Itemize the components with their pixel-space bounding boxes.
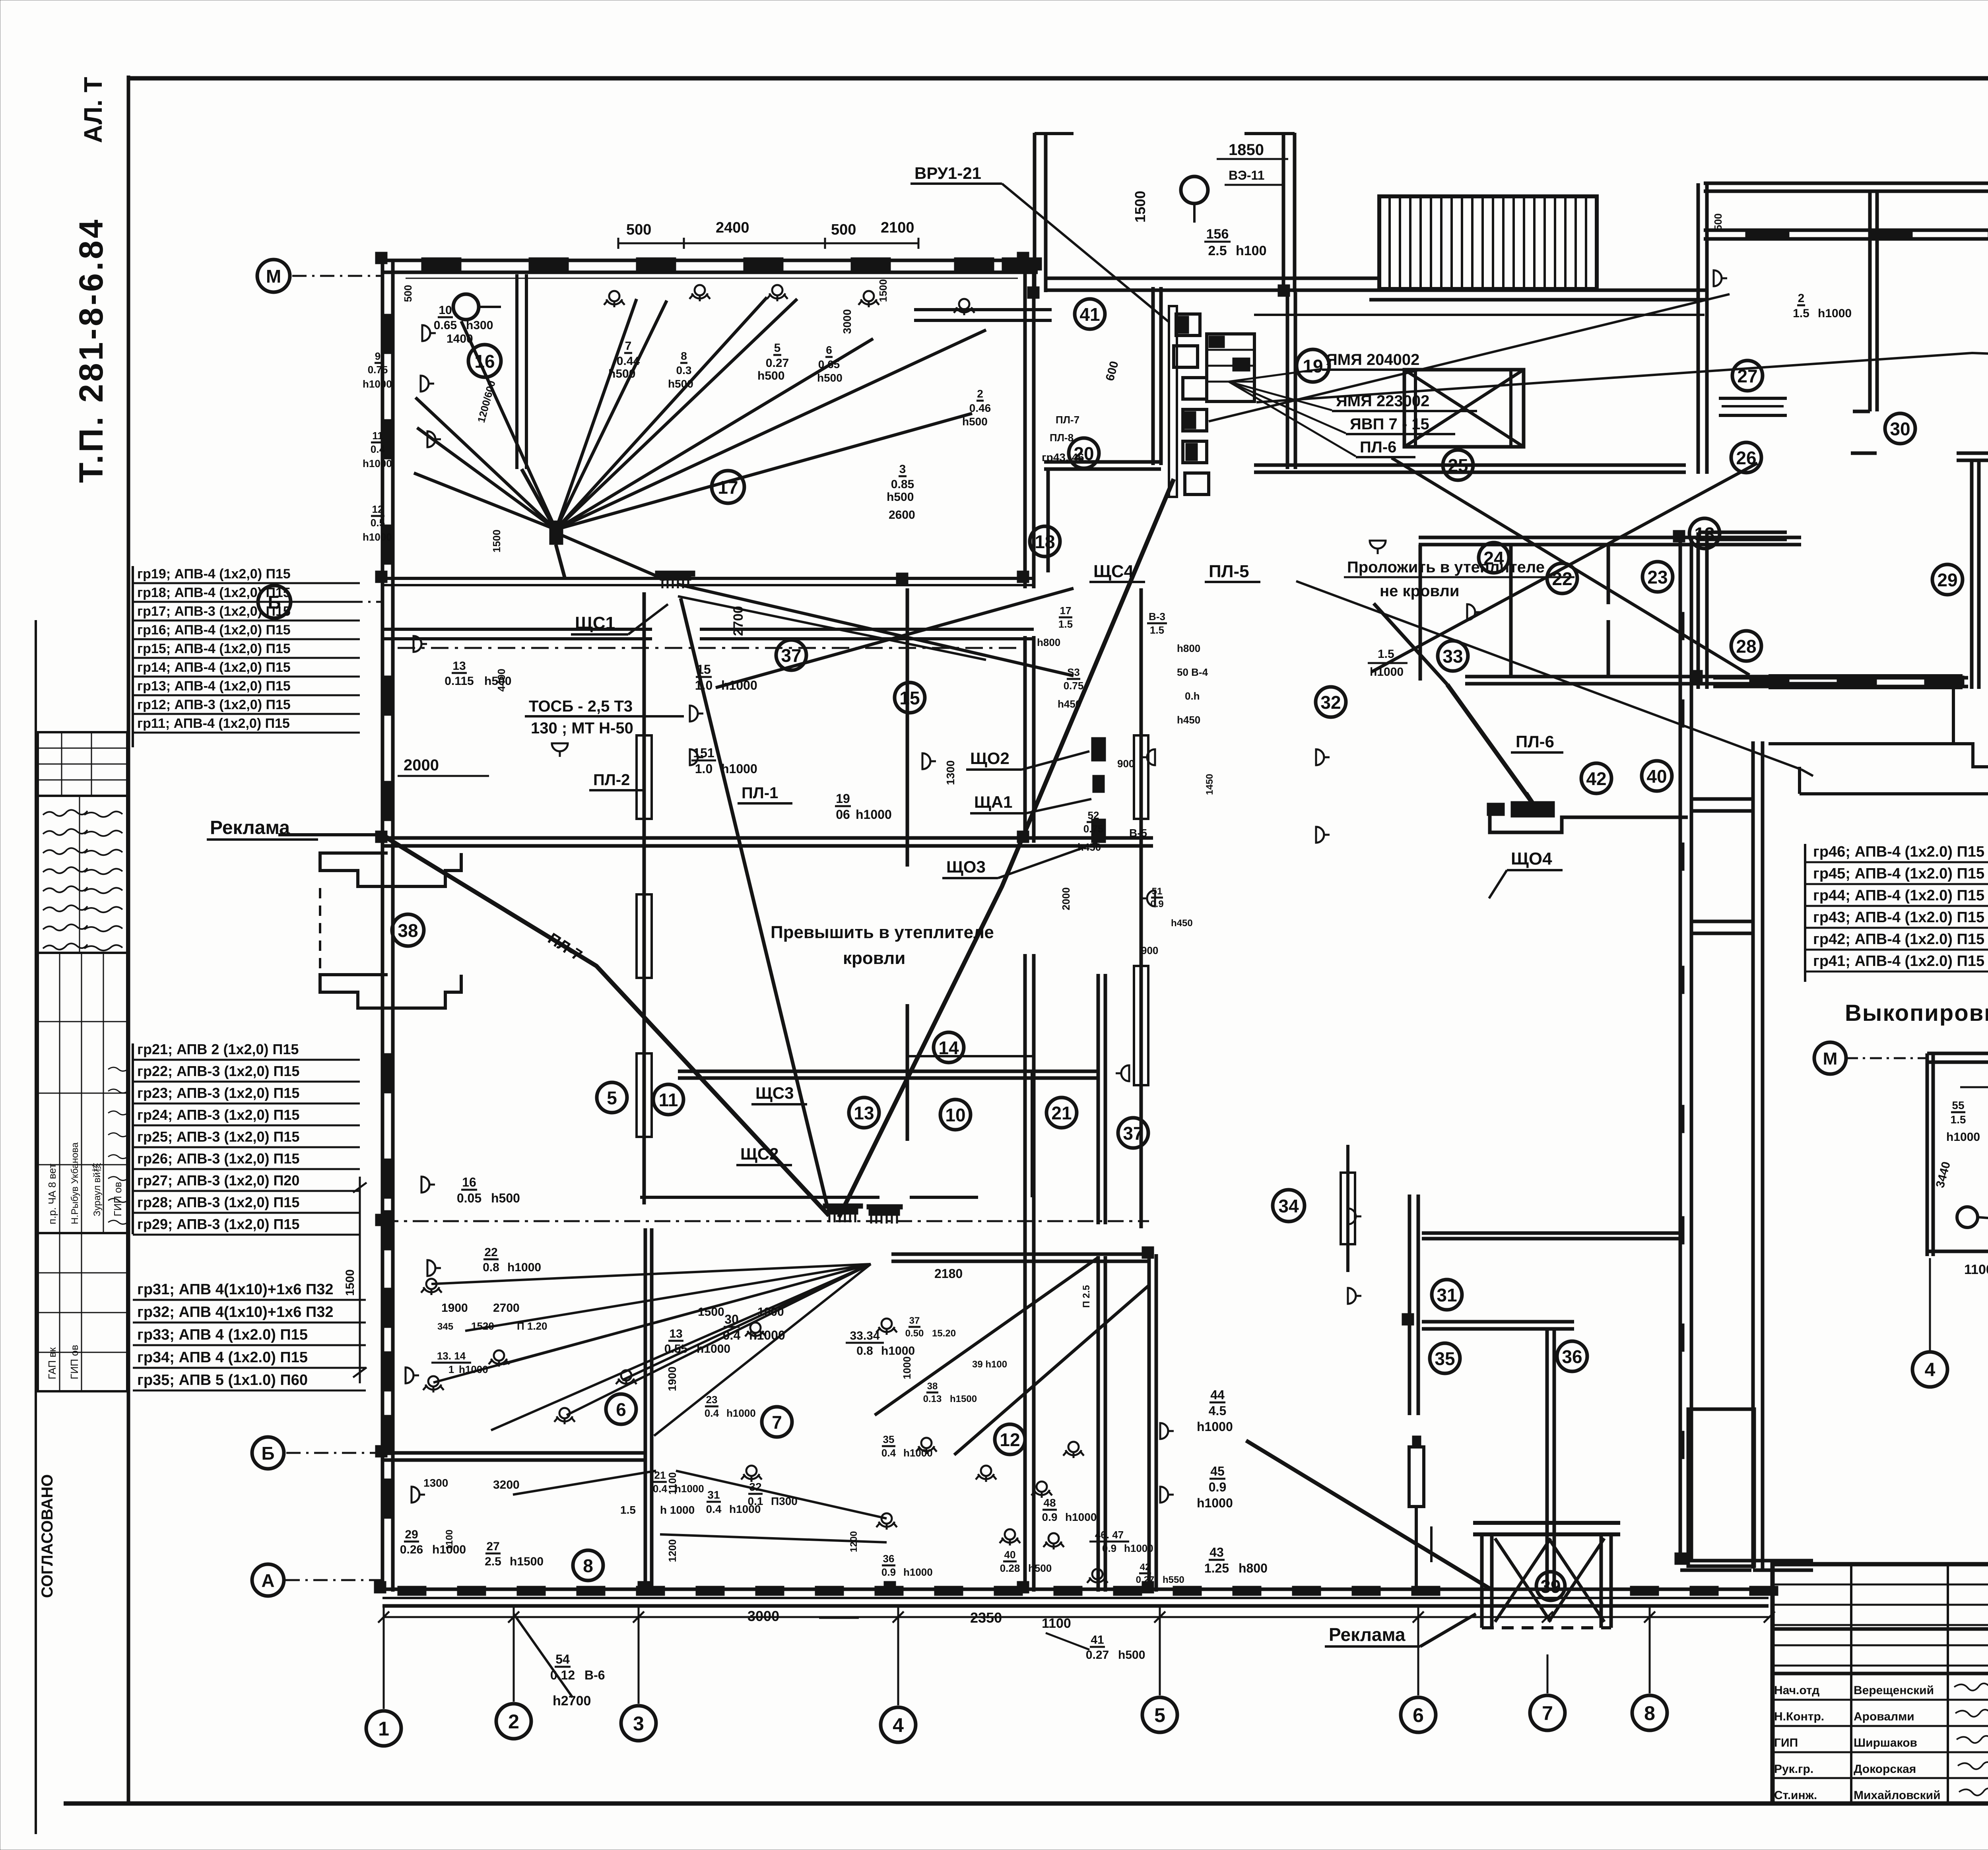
dimension row above top wall (618, 242, 918, 244)
room circle 27 (1732, 361, 1763, 391)
svg-text:130 ; МТ Н-50: 130 ; МТ Н-50 (531, 719, 633, 737)
east hall wall stubs (1691, 797, 1753, 801)
svg-text:19: 19 (836, 791, 850, 806)
svg-text:5: 5 (774, 341, 781, 355)
svg-text:13: 13 (669, 1327, 682, 1340)
svg-text:ГИП: ГИП (1774, 1736, 1798, 1749)
svg-text:1450: 1450 (1204, 774, 1215, 795)
svg-text:2350: 2350 (970, 1610, 1002, 1626)
svg-text:М: М (266, 266, 281, 287)
svg-text:1.5: 1.5 (620, 1504, 636, 1516)
svg-text:1900: 1900 (757, 1305, 784, 1319)
svg-text:0.50: 0.50 (905, 1328, 924, 1339)
left wall window blocks (381, 314, 394, 354)
top wall window blocks (421, 258, 461, 270)
svg-text:21: 21 (1051, 1103, 1072, 1123)
wall band center (axis M right part) (1046, 277, 1380, 280)
right wing top wall (axis M) (1704, 182, 1988, 185)
svg-text:М: М (1823, 1049, 1838, 1069)
partition between rooms 16 and 17 (515, 274, 518, 469)
svg-text:43: 43 (1209, 1545, 1224, 1559)
svg-text:ЩС2: ЩС2 (740, 1144, 779, 1163)
cable room13 cross diagonals (1372, 463, 1757, 672)
svg-text:ПЛ-6: ПЛ-6 (1516, 732, 1554, 751)
svg-text:h1000: h1000 (675, 1483, 704, 1495)
svg-text:9: 9 (375, 350, 381, 362)
svg-text:33: 33 (1442, 646, 1463, 667)
svg-text:2.5: 2.5 (1208, 243, 1227, 258)
svg-text:40: 40 (1004, 1549, 1016, 1561)
svg-text:0.1: 0.1 (748, 1495, 763, 1507)
svg-text:900: 900 (1117, 758, 1134, 770)
axis circle 2 (496, 1704, 531, 1739)
svg-text:22: 22 (1552, 568, 1572, 589)
svg-text:1200: 1200 (666, 1539, 678, 1562)
svg-text:гр13; АПВ-4 (1х2,0) П15: гр13; АПВ-4 (1х2,0) П15 (137, 679, 291, 694)
svg-text:21: 21 (654, 1469, 666, 1481)
wall between room 6 and 8 (382, 1451, 645, 1455)
right wing west wall upper (1697, 183, 1700, 474)
wall junction blobs (375, 252, 387, 264)
svg-text:6: 6 (1413, 1704, 1424, 1726)
svg-text:2000: 2000 (1060, 887, 1072, 910)
svg-text:гр21; АПВ 2 (1х2,0) П15: гр21; АПВ 2 (1х2,0) П15 (137, 1041, 299, 1057)
svg-text:ЩС1: ЩС1 (575, 613, 615, 633)
left margin signatures block (38, 796, 127, 953)
svg-text:ПЛ-6: ПЛ-6 (1360, 438, 1396, 456)
svg-text:17: 17 (1060, 605, 1072, 617)
lamps right rooms (1714, 270, 1727, 286)
svg-text:Б: Б (268, 592, 281, 613)
svg-text:ГАП вк: ГАП вк (46, 1347, 58, 1379)
room circle 18 (1030, 526, 1060, 557)
exterior wall top (axis M) (382, 259, 1038, 262)
svg-text:1520: 1520 (471, 1320, 494, 1332)
svg-text:19: 19 (1303, 356, 1323, 376)
svg-text:h1000: h1000 (697, 1342, 730, 1356)
svg-text:4400: 4400 (495, 669, 507, 692)
svg-text:0.27: 0.27 (766, 357, 789, 370)
svg-text:13. 14: 13. 14 (437, 1350, 466, 1362)
svg-text:2400: 2400 (716, 219, 749, 236)
svg-text:Реклама: Реклама (1329, 1624, 1406, 1645)
svg-text:42: 42 (1586, 768, 1606, 789)
cable hall diagonal to porch (1246, 1441, 1491, 1589)
right wing partition room27/30 (1868, 191, 1872, 411)
left margin approval table (38, 953, 127, 1233)
svg-text:h1000: h1000 (881, 1344, 915, 1357)
svg-text:7: 7 (772, 1412, 782, 1433)
svg-text:38: 38 (927, 1381, 938, 1392)
svg-text:1: 1 (378, 1718, 389, 1740)
svg-text:55: 55 (1952, 1099, 1964, 1111)
cable riser SchS1 to SchS2 (643, 592, 646, 1204)
svg-text:h1000: h1000 (856, 807, 892, 822)
panel SchO4 black box (1511, 801, 1555, 817)
svg-text:1100: 1100 (1042, 1616, 1071, 1631)
svg-text:41: 41 (1091, 1633, 1104, 1646)
svg-text:гр22; АПВ-3 (1х2,0) П15: гр22; АПВ-3 (1х2,0) П15 (137, 1063, 299, 1079)
hall dashed door (1430, 1526, 1433, 1562)
facade niche outlines left of room 38 (320, 853, 461, 886)
room circle 42 (1581, 763, 1611, 793)
svg-text:0.h: 0.h (1185, 690, 1200, 702)
wall between room 35 and 36 (1545, 1329, 1549, 1590)
room circle 37 (1118, 1118, 1148, 1148)
svg-text:h1000: h1000 (721, 762, 757, 776)
svg-text:25: 25 (1448, 455, 1468, 476)
bottom dimension chain line (384, 1616, 1769, 1618)
room circle 16 (468, 345, 501, 377)
svg-text:0.28: 0.28 (1000, 1562, 1020, 1574)
svg-text:0.75: 0.75 (1064, 680, 1084, 692)
svg-text:B-3: B-3 (1149, 611, 1165, 622)
svg-text:h450: h450 (1177, 714, 1200, 726)
svg-text:900: 900 (1141, 944, 1158, 956)
wall right of room 12 (1147, 1254, 1151, 1592)
corridor 37a lower wall band (382, 628, 652, 631)
svg-text:0.115: 0.115 (445, 675, 474, 688)
cable riser center hall (1140, 588, 1143, 1228)
svg-text:гр43; АПВ-4 (1х2.0) П15: гр43; АПВ-4 (1х2.0) П15 (1813, 909, 1984, 926)
svg-text:0.65: 0.65 (434, 319, 457, 332)
svg-text:16: 16 (462, 1175, 476, 1189)
panels SchS2 SchS3 combs bottom (827, 1208, 858, 1222)
wall under room 30 (1957, 452, 1988, 455)
svg-text:ЯВП 7 - 15: ЯВП 7 - 15 (1350, 415, 1429, 433)
svg-text:36: 36 (1562, 1346, 1582, 1367)
drawing frame left border (127, 76, 130, 1805)
svg-text:1100: 1100 (666, 1472, 678, 1495)
vertical cable riser in hall (1346, 1145, 1349, 1272)
svg-text:гр12; АПВ-3 (1х2,0) П15: гр12; АПВ-3 (1х2,0) П15 (137, 697, 291, 712)
drawing frame bottom border (64, 1802, 1988, 1806)
svg-text:10: 10 (945, 1105, 965, 1125)
svg-text:гр42; АПВ-4 (1х2.0) П15: гр42; АПВ-4 (1х2.0) П15 (1813, 931, 1984, 948)
svg-text:2: 2 (977, 388, 983, 400)
svg-text:54: 54 (555, 1652, 570, 1666)
svg-text:7: 7 (1542, 1702, 1553, 1724)
vestibule top center walls (1033, 133, 1037, 292)
svg-text:Б: Б (261, 1443, 274, 1464)
svg-text:ЩО4: ЩО4 (1511, 849, 1552, 869)
svg-text:Михайловский: Михайловский (1854, 1789, 1941, 1802)
svg-text:13: 13 (452, 659, 466, 673)
svg-text:4: 4 (893, 1714, 904, 1736)
room circle 34 (1273, 1190, 1305, 1222)
svg-text:Ст.инж.: Ст.инж. (1774, 1789, 1817, 1802)
svg-text:13: 13 (854, 1103, 874, 1123)
wall lamps room15/center (552, 743, 568, 757)
svg-text:1300: 1300 (944, 760, 957, 785)
reklama leader left (278, 833, 384, 836)
svg-text:Верещенский: Верещенский (1854, 1684, 1934, 1697)
room circle 19 (1297, 349, 1329, 382)
room 31 top wall (1422, 1231, 1680, 1235)
svg-text:0.26: 0.26 (400, 1543, 423, 1556)
street lamp at entrance (1181, 176, 1208, 204)
svg-text:500: 500 (1712, 213, 1724, 231)
svg-text:1100: 1100 (1964, 1262, 1988, 1277)
svg-text:0.4: 0.4 (706, 1503, 722, 1515)
svg-text:гр33; АПВ 4 (1х2.0) П15: гр33; АПВ 4 (1х2.0) П15 (137, 1326, 308, 1343)
room circle 39 (1536, 1572, 1565, 1600)
svg-text:37: 37 (781, 645, 801, 666)
svg-text:Т.П. 281-8-6.84: Т.П. 281-8-6.84 (72, 217, 110, 483)
vent chamber cross box (1404, 370, 1524, 447)
inset axis M circle (1814, 1042, 1846, 1074)
svg-text:АЛ. Т: АЛ. Т (79, 77, 107, 143)
svg-text:ПЛ-7: ПЛ-7 (1056, 414, 1079, 426)
corridor 37a axis dash line (398, 647, 1018, 649)
svg-text:h1500: h1500 (950, 1394, 977, 1404)
svg-text:h500: h500 (887, 491, 914, 504)
gallery bottom turn (1753, 1559, 1813, 1563)
inset axis 4 circle (1912, 1352, 1947, 1387)
svg-text:гр11; АПВ-4 (1х2,0) П15: гр11; АПВ-4 (1х2,0) П15 (137, 716, 290, 731)
room circle 31 (1432, 1280, 1462, 1310)
left margin stamp table upper (38, 732, 127, 796)
room circle 13 upper (1689, 518, 1720, 549)
svg-text:h500: h500 (817, 372, 843, 384)
partition rooms 29 (1970, 461, 1974, 689)
svg-text:5: 5 (607, 1088, 617, 1108)
svg-text:13: 13 (1694, 524, 1714, 544)
room circle 30 (1885, 413, 1915, 444)
svg-text:29: 29 (1937, 570, 1957, 590)
svg-text:2700: 2700 (731, 606, 746, 636)
svg-text:1500: 1500 (877, 279, 889, 302)
wall between rooms 16/17 and corridor (382, 577, 1034, 580)
svg-text:0.9: 0.9 (881, 1566, 896, 1578)
svg-text:2700: 2700 (493, 1301, 520, 1315)
axis circle 1 (366, 1711, 401, 1746)
corridor wall vertical axis B left section (1023, 259, 1027, 588)
svg-text:гр31; АПВ 4(1х10)+1х6 П32: гр31; АПВ 4(1х10)+1х6 П32 (137, 1281, 333, 1298)
rooms 31/35/36 west wall (1408, 1195, 1411, 1415)
svg-text:ЩО2: ЩО2 (970, 749, 1010, 768)
room circle 15 (895, 683, 925, 713)
room circle 8 (573, 1550, 603, 1580)
svg-text:0.46: 0.46 (969, 402, 991, 414)
room circle 21 (1046, 1098, 1077, 1128)
svg-text:41: 41 (1079, 304, 1100, 325)
room circle 20 (1069, 438, 1099, 468)
room circle 24 (1479, 543, 1509, 573)
svg-text:h500: h500 (491, 1191, 520, 1205)
svg-text:35: 35 (883, 1433, 895, 1445)
room circle 11 (653, 1084, 683, 1115)
svg-text:11: 11 (372, 430, 383, 442)
svg-text:ПЛ-5: ПЛ-5 (1209, 562, 1249, 581)
svg-text:06: 06 (836, 807, 850, 822)
svg-text:35: 35 (1435, 1348, 1455, 1369)
svg-text:гр25; АПВ-3 (1х2,0) П15: гр25; АПВ-3 (1х2,0) П15 (137, 1129, 299, 1145)
left margin extra annotations (108, 1067, 129, 1071)
svg-text:28: 28 (1736, 636, 1756, 657)
drawing frame top border (127, 76, 1988, 81)
svg-text:1900: 1900 (666, 1367, 678, 1391)
svg-text:0.4: 0.4 (371, 443, 385, 455)
svg-text:8: 8 (583, 1555, 593, 1576)
svg-text:0.8: 0.8 (856, 1344, 873, 1357)
svg-text:38: 38 (398, 920, 418, 941)
svg-text:15: 15 (899, 688, 920, 708)
svg-text:гр16; АПВ-4 (1х2,0) П15: гр16; АПВ-4 (1х2,0) П15 (137, 622, 291, 638)
svg-text:7: 7 (625, 339, 632, 353)
svg-text:ЩС3: ЩС3 (755, 1084, 794, 1102)
outer sheet edge left (35, 620, 37, 1834)
svg-text:18: 18 (1035, 531, 1055, 552)
axis circle B (258, 586, 291, 618)
left wall dimension chain (359, 1177, 361, 1383)
leader lines from labels to VRU (1229, 369, 1322, 382)
svg-text:39: 39 (1540, 1576, 1561, 1597)
svg-text:ПЛ-2: ПЛ-2 (593, 771, 630, 789)
svg-text:ВРУ1-21: ВРУ1-21 (914, 164, 981, 182)
room circle 14 (934, 1032, 964, 1063)
room circle 35 (1430, 1343, 1460, 1373)
long cable SchS1 to SchS2 diagonal (681, 598, 828, 1208)
axis circle 7 bottom (1530, 1695, 1565, 1730)
svg-text:17: 17 (718, 477, 738, 498)
room circle 7 (762, 1407, 792, 1437)
svg-text:гр28; АПВ-3 (1х2,0) П15: гр28; АПВ-3 (1х2,0) П15 (137, 1194, 299, 1210)
svg-text:h500: h500 (1118, 1648, 1145, 1662)
svg-text:h1000: h1000 (1197, 1419, 1233, 1434)
svg-text:h500: h500 (1028, 1562, 1052, 1574)
bottom axis leader lines (383, 1607, 385, 1709)
svg-text:Н.Контр.: Н.Контр. (1774, 1710, 1824, 1723)
svg-text:40: 40 (1646, 766, 1667, 787)
east corridor wall window notches (1679, 612, 1684, 640)
svg-text:33.34: 33.34 (850, 1329, 879, 1342)
svg-text:гр32; АПВ 4(1х10)+1х6 П32: гр32; АПВ 4(1х10)+1х6 П32 (137, 1304, 333, 1321)
svg-text:h300: h300 (466, 319, 493, 332)
svg-text:1.0: 1.0 (695, 678, 712, 692)
svg-text:0.4: 0.4 (881, 1447, 896, 1459)
exterior wall bottom (382, 1588, 1769, 1591)
axis circle 3 (621, 1706, 656, 1741)
svg-text:0.65: 0.65 (818, 358, 840, 370)
svg-text:ВЭ-11: ВЭ-11 (1229, 168, 1264, 182)
wall top of room 12 (891, 1253, 1149, 1256)
room circle 38 (392, 914, 424, 946)
svg-text:14: 14 (938, 1037, 959, 1058)
svg-text:1.5: 1.5 (1150, 624, 1164, 636)
svg-text:22: 22 (484, 1246, 497, 1259)
rooms 28/29 lower walls (1698, 531, 1787, 534)
shelf wall right of room 17 (914, 308, 1052, 311)
svg-text:А: А (261, 1570, 274, 1591)
svg-text:1100: 1100 (444, 1530, 455, 1550)
svg-text:h1500: h1500 (510, 1555, 544, 1568)
svg-text:1500: 1500 (491, 529, 503, 553)
room circle 37 corridor upper (776, 640, 806, 670)
room circle 23 (1642, 562, 1673, 592)
cable riser near room 35 (1409, 1447, 1424, 1507)
svg-text:31: 31 (707, 1489, 720, 1501)
svg-text:0.8: 0.8 (483, 1261, 499, 1274)
svg-text:8: 8 (681, 350, 687, 362)
svg-text:26: 26 (1736, 448, 1756, 468)
room15 crossing cables (678, 584, 1074, 676)
right wing bottom windows (1713, 676, 1968, 680)
svg-text:1500: 1500 (344, 1269, 357, 1296)
svg-text:16: 16 (474, 351, 495, 372)
right wing leg outline (1769, 676, 1961, 688)
svg-text:1850: 1850 (1229, 141, 1264, 159)
cable across to PL table (1256, 353, 1988, 402)
axis circle 6 bottom (1401, 1697, 1436, 1732)
room circle 26 (1731, 442, 1761, 473)
svg-text:39 h100: 39 h100 (972, 1359, 1007, 1370)
svg-text:0.55: 0.55 (664, 1342, 687, 1356)
svg-text:гр26; АПВ-3 (1х2,0) П15: гр26; АПВ-3 (1х2,0) П15 (137, 1150, 299, 1167)
axis line bottom-left block (382, 1220, 1149, 1222)
svg-text:гр29; АПВ-3 (1х2,0) П15: гр29; АПВ-3 (1х2,0) П15 (137, 1216, 299, 1232)
svg-text:h1000: h1000 (1818, 307, 1852, 320)
axis circle M (257, 260, 290, 292)
svg-text:h1000: h1000 (1065, 1511, 1097, 1523)
svg-text:0.5: 0.5 (371, 517, 385, 529)
room circle 5 (597, 1082, 627, 1113)
svg-text:11: 11 (659, 1090, 678, 1110)
svg-text:0.4: 0.4 (653, 1483, 668, 1495)
svg-text:0.85: 0.85 (891, 478, 914, 491)
room circle 6 (606, 1394, 636, 1424)
svg-text:П 2.5: П 2.5 (1081, 1285, 1092, 1308)
svg-text:ЯМЯ 223002: ЯМЯ 223002 (1336, 392, 1429, 410)
wall of panels SchS2/SchS3 (640, 1196, 879, 1199)
room circle 36 (1557, 1341, 1587, 1371)
left margin lower table (38, 1233, 127, 1391)
inset lamp (1957, 1207, 1978, 1228)
svg-text:гр34; АПВ 4 (1х2.0) П15: гр34; АПВ 4 (1х2.0) П15 (137, 1349, 308, 1366)
VRU room walls (1151, 287, 1155, 465)
svg-text:3: 3 (633, 1712, 644, 1735)
svg-text:12: 12 (372, 503, 384, 515)
svg-text:156: 156 (1206, 227, 1229, 242)
svg-text:гр45; АПВ-4 (1х2.0) П15: гр45; АПВ-4 (1х2.0) П15 (1813, 865, 1984, 882)
svg-text:h1000: h1000 (363, 458, 392, 469)
svg-text:В-6: В-6 (584, 1668, 605, 1682)
svg-text:2: 2 (1798, 292, 1805, 305)
svg-text:20: 20 (1074, 443, 1094, 464)
svg-text:h1000: h1000 (726, 1407, 756, 1419)
right wing gallery wall (1751, 741, 1755, 1569)
right wing window band (1704, 229, 1988, 232)
svg-text:0.9: 0.9 (1042, 1511, 1058, 1523)
corridor wall under rooms 22/23 (1465, 675, 1845, 679)
axis B2 dash leader (286, 1452, 382, 1454)
room circle 29 (1932, 564, 1963, 595)
svg-text:4.5: 4.5 (1209, 1404, 1226, 1418)
svg-text:1.5: 1.5 (1058, 618, 1073, 630)
svg-text:2: 2 (508, 1710, 519, 1733)
title block line under doc number (1773, 1627, 1988, 1631)
svg-text:3000: 3000 (747, 1608, 779, 1624)
svg-text:30: 30 (1890, 419, 1910, 439)
wall between rooms 6/8 and 7 (644, 1228, 647, 1592)
room circle 17 (712, 471, 744, 503)
svg-text:h1000: h1000 (363, 378, 392, 390)
svg-text:1.25: 1.25 (1204, 1561, 1229, 1575)
svg-text:1500: 1500 (1132, 191, 1148, 223)
svg-text:5: 5 (1154, 1704, 1165, 1726)
svg-text:24: 24 (1483, 548, 1504, 568)
svg-text:1.5: 1.5 (1378, 648, 1394, 661)
